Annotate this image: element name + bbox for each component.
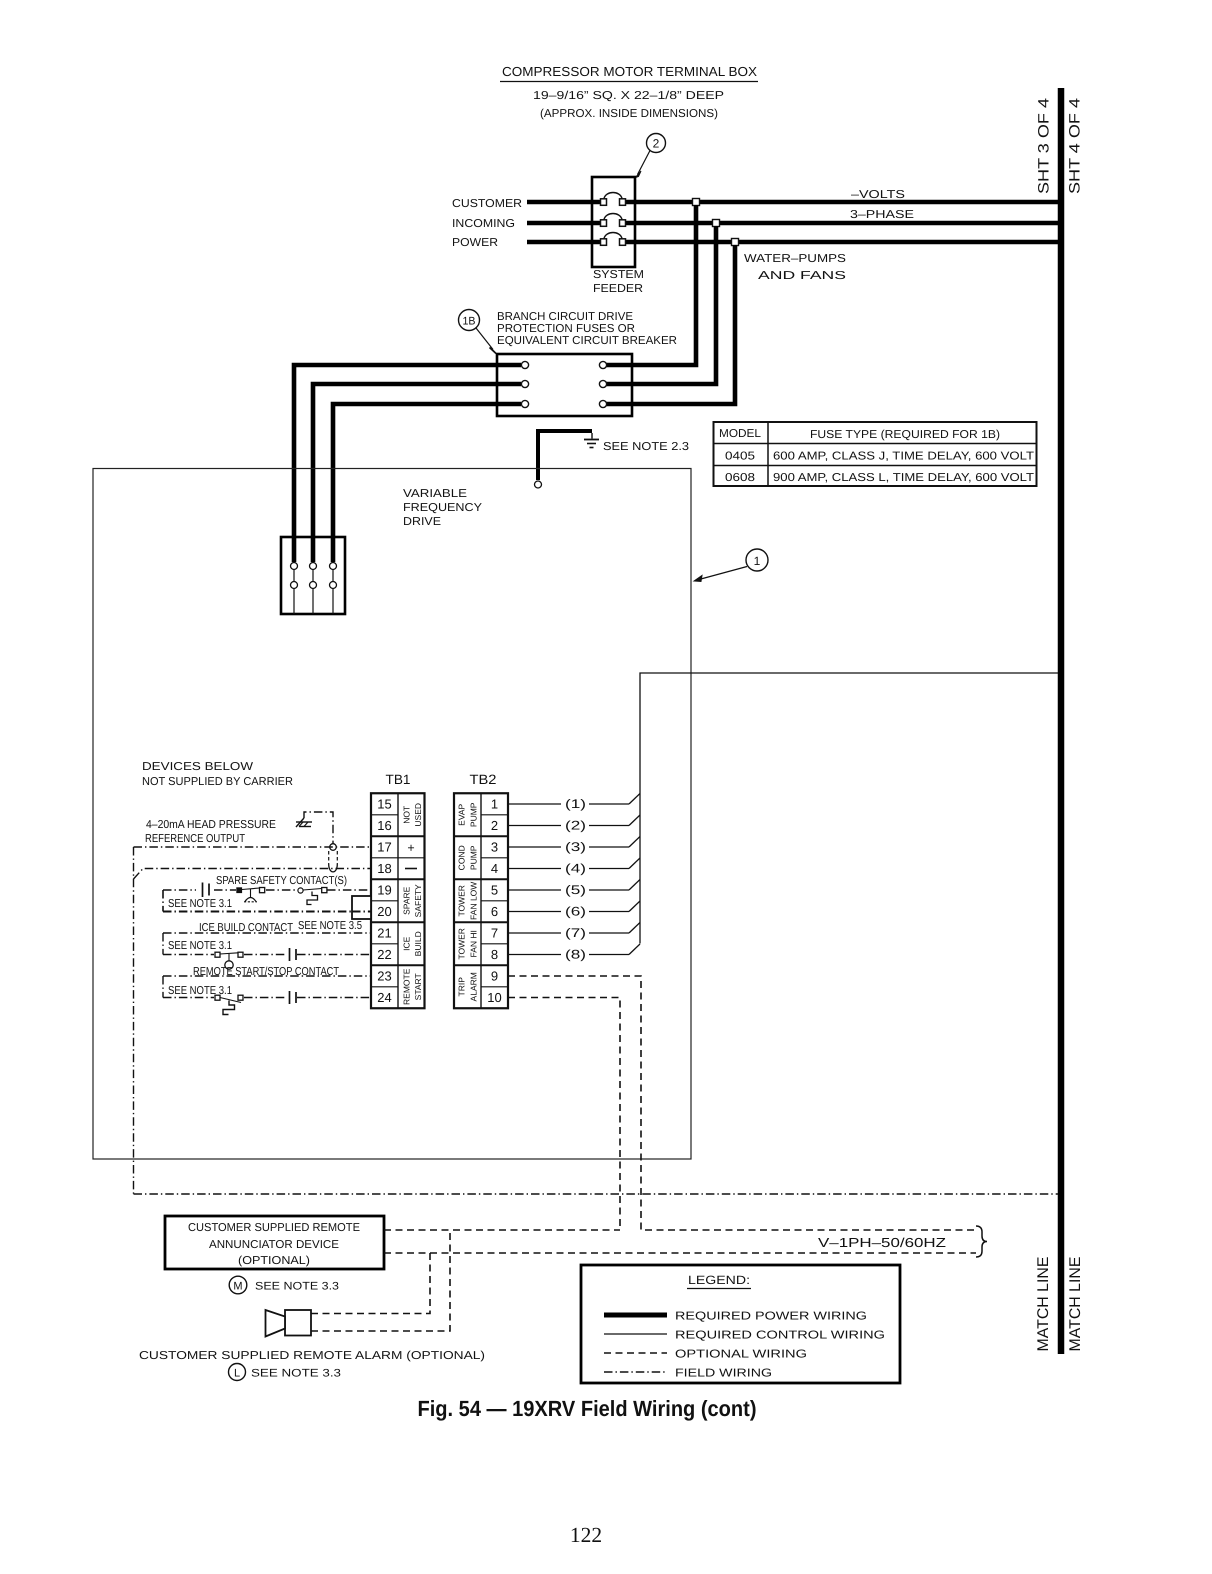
svg-text:(APPROX. INSIDE DIMENSIONS): (APPROX. INSIDE DIMENSIONS) — [540, 108, 718, 120]
svg-text:2: 2 — [653, 137, 660, 151]
sheet continuation line (thick vertical match line) — [1058, 88, 1065, 1354]
TB1 label NOT USED — [402, 803, 424, 827]
svg-text:19–9/16” SQ. X 22–1/8” DEEP: 19–9/16” SQ. X 22–1/8” DEEP — [533, 90, 724, 102]
svg-text:4: 4 — [491, 861, 498, 876]
svg-text:USED: USED — [413, 803, 423, 827]
wire TB1-18 (dash-dot field wiring) — [134, 869, 372, 880]
wire TB1-17 (dash-dot field wiring) — [134, 846, 372, 848]
fuse symbol L1 — [601, 193, 626, 206]
svg-text:EQUIVALENT CIRCUIT BREAKER: EQUIVALENT CIRCUIT BREAKER — [497, 335, 677, 347]
svg-text:(5): (5) — [565, 883, 586, 897]
svg-text:3: 3 — [491, 840, 498, 855]
svg-text:2: 2 — [491, 818, 498, 833]
wire TB2-8 control output — [508, 944, 640, 962]
svg-text:23: 23 — [377, 969, 391, 984]
note DEVICES BELOW NOT SUPPLIED BY CARRIER — [142, 761, 293, 788]
svg-text:(6): (6) — [565, 905, 586, 919]
bracket grouping V-1PH wires — [976, 1226, 987, 1257]
note 4-20mA HEAD PRESSURE REFERENCE OUTPUT — [145, 819, 276, 845]
svg-text:M: M — [233, 1281, 242, 1293]
svg-text:VARIABLE: VARIABLE — [403, 488, 467, 500]
svg-text:NOT SUPPLIED BY CARRIER: NOT SUPPLIED BY CARRIER — [142, 776, 293, 788]
svg-text:SPARE: SPARE — [402, 886, 412, 915]
svg-text:SAFETY: SAFETY — [413, 884, 423, 917]
svg-text:FEEDER: FEEDER — [593, 283, 643, 295]
svg-text:15: 15 — [377, 797, 391, 812]
svg-text:1: 1 — [754, 554, 761, 568]
svg-text:5: 5 — [491, 883, 498, 898]
wire TB2-1 control output — [508, 794, 640, 812]
system feeder terminal box — [592, 177, 635, 267]
svg-text:(7): (7) — [565, 926, 586, 940]
svg-text:MODEL: MODEL — [719, 428, 762, 440]
TB2 label TRIP ALARM — [457, 972, 479, 1001]
switch blade 2 spare safety — [298, 888, 327, 905]
terminal block TB1 frame — [371, 793, 425, 1008]
wire drop L1 to breaker (thick) — [606, 205, 696, 365]
svg-text:+: + — [407, 841, 414, 855]
svg-text:PROTECTION FUSES OR: PROTECTION FUSES OR — [497, 323, 635, 335]
svg-text:TB1: TB1 — [386, 772, 411, 787]
ground terminal node — [535, 481, 542, 488]
legend required power wiring — [604, 1311, 867, 1323]
wire L1 customer power (thick) — [527, 200, 1061, 205]
horn remote alarm symbol — [266, 1310, 312, 1337]
svg-text:SEE NOTE 3.1: SEE NOTE 3.1 — [168, 898, 232, 910]
wire drop L2 to breaker (thick) — [606, 226, 716, 384]
VFD input terminals phase C — [330, 563, 337, 615]
svg-text:(1): (1) — [565, 797, 586, 811]
TB2 label COND PUMP — [457, 845, 479, 870]
svg-text:L: L — [234, 1368, 240, 1380]
jumper box terminals 19-20 — [352, 896, 371, 919]
svg-text:18: 18 — [377, 861, 391, 876]
svg-text:FIELD WIRING: FIELD WIRING — [675, 1368, 772, 1380]
TB1 terminal numbers 15-24 — [377, 797, 391, 1006]
junction node L1 — [693, 199, 700, 206]
wire breaker left phase A (thick) — [294, 365, 521, 562]
svg-text:10: 10 — [487, 990, 501, 1005]
svg-text:START: START — [413, 973, 423, 1000]
svg-text:16: 16 — [377, 818, 391, 833]
wire remote start loop (dash-dot) — [163, 976, 371, 998]
svg-text:POWER: POWER — [452, 237, 498, 249]
svg-text:22: 22 — [377, 947, 391, 962]
balloon L remote alarm — [229, 1364, 246, 1381]
svg-text:3–PHASE: 3–PHASE — [850, 209, 914, 221]
wire TB2-3 control output — [508, 837, 640, 855]
TB1 label REMOTE START — [402, 968, 424, 1005]
legend title — [687, 1273, 751, 1289]
svg-text:SEE NOTE 3.3: SEE NOTE 3.3 — [251, 1368, 341, 1380]
svg-text:6: 6 — [491, 904, 498, 919]
wire breaker left phase B (thick) — [313, 384, 521, 562]
TB1 label ICE BUILD — [402, 931, 424, 956]
junction node L2 — [713, 220, 720, 227]
svg-text:LEGEND:: LEGEND: — [688, 1273, 750, 1287]
balloon 1B (branch circuit callout) — [459, 310, 497, 354]
svg-text:ANNUNCIATOR DEVICE: ANNUNCIATOR DEVICE — [209, 1239, 339, 1251]
svg-text:NOT: NOT — [402, 806, 412, 824]
svg-text:Fig. 54 — 19XRV Field Wiring (: Fig. 54 — 19XRV Field Wiring (cont) — [418, 1396, 757, 1421]
svg-text:SEE NOTE 3.1: SEE NOTE 3.1 — [168, 940, 232, 952]
svg-text:FAN HI: FAN HI — [469, 930, 479, 957]
TB2 label EVAP PUMP — [457, 802, 479, 827]
svg-text:(2): (2) — [565, 819, 586, 833]
svg-text:900 AMP, CLASS L, TIME DELAY,: 900 AMP, CLASS L, TIME DELAY, 600 VOLT — [773, 472, 1034, 484]
fuse symbol L3 — [601, 233, 626, 246]
svg-text:17: 17 — [377, 840, 391, 855]
wire breaker left phase C (thick) — [333, 404, 521, 562]
svg-text:122: 122 — [570, 1523, 602, 1547]
svg-text:REFERENCE OUTPUT: REFERENCE OUTPUT — [145, 833, 245, 845]
svg-text:INCOMING: INCOMING — [452, 218, 515, 230]
wire TB2-10 optional (dashed) — [508, 998, 620, 1231]
svg-text:9: 9 — [491, 969, 498, 984]
switch blade 1 spare safety — [237, 888, 265, 902]
wire TB2-4 control output — [508, 858, 640, 876]
wire annunciator top (dashed) — [384, 1229, 620, 1231]
svg-text:8: 8 — [491, 947, 498, 962]
wire L3 power (thick) — [527, 240, 1061, 245]
wire shield drain (dash-dot) — [304, 812, 333, 844]
TB2 label TOWER FAN HI — [457, 928, 479, 959]
balloon 1 (VFD callout) — [694, 549, 768, 582]
TB1 label minus — [405, 868, 417, 870]
svg-text:FAN LOW: FAN LOW — [469, 882, 479, 920]
svg-text:SEE NOTE 3.5: SEE NOTE 3.5 — [298, 920, 362, 932]
fuse symbol L2 — [601, 214, 626, 227]
svg-text:CUSTOMER SUPPLIED REMOTE: CUSTOMER SUPPLIED REMOTE — [188, 1222, 360, 1234]
legend field wiring — [604, 1368, 772, 1380]
svg-text:SEE NOTE 3.3: SEE NOTE 3.3 — [255, 1281, 339, 1293]
wire L2 incoming power (thick) — [527, 221, 1061, 226]
svg-text:BUILD: BUILD — [413, 931, 423, 956]
svg-text:(8): (8) — [565, 948, 586, 962]
wire TB2-7 control output — [508, 923, 640, 941]
label WATER-PUMPS AND FANS — [744, 253, 846, 282]
node shield tap on terminal 17 wire — [330, 844, 337, 851]
svg-text:TB2: TB2 — [470, 772, 497, 787]
legend required control wiring — [604, 1330, 885, 1342]
svg-text:24: 24 — [377, 990, 391, 1005]
wire ice build loop (dash-dot) — [163, 933, 371, 955]
svg-text:19: 19 — [377, 883, 391, 898]
svg-text:REQUIRED POWER WIRING: REQUIRED POWER WIRING — [675, 1311, 867, 1323]
svg-text:MATCH LINE: MATCH LINE — [1067, 1257, 1084, 1352]
wire horn bottom (dashed) — [311, 1230, 450, 1331]
svg-text:AND FANS: AND FANS — [758, 270, 846, 282]
svg-text:PUMP: PUMP — [469, 802, 479, 827]
breaker terminal circles left — [521, 361, 528, 407]
junction node L3 — [732, 239, 739, 246]
svg-text:(OPTIONAL): (OPTIONAL) — [238, 1255, 310, 1267]
field wiring trunk bottom horizontal (dash-dot) — [134, 1193, 1059, 1195]
legend box — [581, 1265, 900, 1383]
VFD enclosure box — [93, 469, 691, 1160]
VFD input terminal box — [281, 537, 345, 614]
svg-text:OPTIONAL WIRING: OPTIONAL WIRING — [675, 1349, 807, 1361]
svg-text:ICE BUILD CONTACT: ICE BUILD CONTACT — [199, 922, 293, 934]
contact symbol spare safety — [203, 883, 210, 898]
svg-text:0608: 0608 — [725, 472, 755, 484]
note text branch circuit drive protection — [497, 311, 677, 347]
wire horn top (dashed) — [311, 1253, 430, 1314]
control wiring bundle riser — [640, 673, 1058, 944]
breaker terminal circles right — [599, 361, 606, 407]
TB2 terminal numbers 1-10 — [487, 797, 501, 1006]
svg-text:4–20mA HEAD PRESSURE: 4–20mA HEAD PRESSURE — [146, 819, 276, 831]
svg-text:0405: 0405 — [725, 451, 755, 463]
field wiring trunk left vertical (dash-dot) — [133, 847, 135, 1194]
earth ground symbol — [584, 433, 599, 448]
balloon M motor annunciator — [229, 1276, 247, 1294]
svg-text:(3): (3) — [565, 840, 586, 854]
wire TB2-2 control output — [508, 815, 640, 833]
chassis ground symbol (shield) — [296, 818, 312, 827]
svg-text:600 AMP, CLASS J, TIME DELAY,: 600 AMP, CLASS J, TIME DELAY, 600 VOLT — [773, 451, 1034, 463]
ground wire from breaker (thick) — [538, 431, 592, 480]
breaker box 1B — [497, 354, 632, 416]
label VARIABLE FREQUENCY DRIVE — [403, 488, 482, 528]
wire drop L3 to breaker (thick) — [606, 245, 735, 404]
svg-text:MATCH LINE: MATCH LINE — [1035, 1257, 1052, 1352]
contact symbol remote start — [290, 991, 297, 1004]
svg-text:1: 1 — [491, 797, 498, 812]
wire spare safety loop (dash-dot) — [163, 890, 371, 912]
svg-text:DEVICES BELOW: DEVICES BELOW — [142, 761, 253, 773]
wire annunciator bottom to V-1PH (dashed) — [384, 1252, 976, 1254]
TB2 label TOWER FAN LOW — [457, 882, 479, 920]
annunciator device box — [165, 1216, 384, 1269]
contact symbol ice build — [290, 948, 297, 961]
twisted pair loop symbol — [329, 851, 338, 872]
svg-text:V–1PH–50/60HZ: V–1PH–50/60HZ — [818, 1235, 946, 1250]
label SYSTEM FEEDER — [593, 269, 644, 295]
svg-text:SYSTEM: SYSTEM — [593, 269, 644, 281]
svg-text:REMOTE: REMOTE — [402, 968, 412, 1005]
svg-text:REQUIRED CONTROL WIRING: REQUIRED CONTROL WIRING — [675, 1330, 885, 1342]
svg-text:BRANCH CIRCUIT DRIVE: BRANCH CIRCUIT DRIVE — [497, 311, 633, 323]
svg-text:7: 7 — [491, 926, 498, 941]
svg-text:CUSTOMER SUPPLIED REMOTE ALARM: CUSTOMER SUPPLIED REMOTE ALARM (OPTIONAL… — [139, 1350, 485, 1362]
TB1 label SPARE SAFETY — [402, 884, 424, 917]
wire TB2-9 optional (dashed) — [508, 976, 976, 1230]
svg-text:DRIVE: DRIVE — [403, 516, 441, 528]
svg-text:ALARM: ALARM — [469, 972, 479, 1001]
VFD input terminals phase B — [310, 563, 317, 615]
svg-text:FUSE TYPE (REQUIRED FOR 1B): FUSE TYPE (REQUIRED FOR 1B) — [810, 429, 1000, 441]
svg-text:ICE: ICE — [402, 936, 412, 951]
svg-text:21: 21 — [377, 926, 391, 941]
terminal block TB2 frame — [454, 793, 508, 1008]
svg-text:SHT 3 OF 4: SHT 3 OF 4 — [1036, 98, 1053, 194]
VFD input terminals phase A — [291, 563, 298, 615]
svg-text:SPARE SAFETY CONTACT(S): SPARE SAFETY CONTACT(S) — [216, 875, 347, 887]
switch blade ice build — [215, 952, 243, 969]
svg-text:SHT 4 OF 4: SHT 4 OF 4 — [1067, 98, 1084, 194]
svg-text:–VOLTS: –VOLTS — [851, 189, 905, 201]
svg-text:FREQUENCY: FREQUENCY — [403, 502, 482, 514]
svg-text:EVAP: EVAP — [457, 803, 467, 825]
svg-text:1B: 1B — [463, 316, 476, 328]
balloon 2 (system feeder callout) — [636, 134, 666, 178]
svg-text:WATER–PUMPS: WATER–PUMPS — [744, 253, 846, 265]
svg-text:COND: COND — [457, 845, 467, 870]
svg-text:(4): (4) — [565, 862, 586, 876]
wire TB2-5 control output — [508, 880, 640, 898]
svg-text:TOWER: TOWER — [457, 885, 467, 916]
svg-text:TRIP: TRIP — [457, 977, 467, 997]
svg-text:PUMP: PUMP — [469, 845, 479, 870]
svg-text:CUSTOMER: CUSTOMER — [452, 198, 522, 210]
svg-text:SEE NOTE 2.3: SEE NOTE 2.3 — [603, 441, 689, 453]
svg-text:SEE NOTE 3.1: SEE NOTE 3.1 — [168, 985, 232, 997]
wire TB2-6 control output — [508, 901, 640, 919]
title COMPRESSOR MOTOR TERMINAL BOX — [500, 64, 758, 82]
fuse type table — [714, 422, 1037, 486]
legend optional wiring — [604, 1349, 807, 1361]
svg-text:TOWER: TOWER — [457, 928, 467, 959]
switch blade remote start — [215, 995, 243, 1014]
svg-text:COMPRESSOR MOTOR TERMINAL BOX: COMPRESSOR MOTOR TERMINAL BOX — [502, 64, 757, 79]
svg-text:20: 20 — [377, 904, 391, 919]
